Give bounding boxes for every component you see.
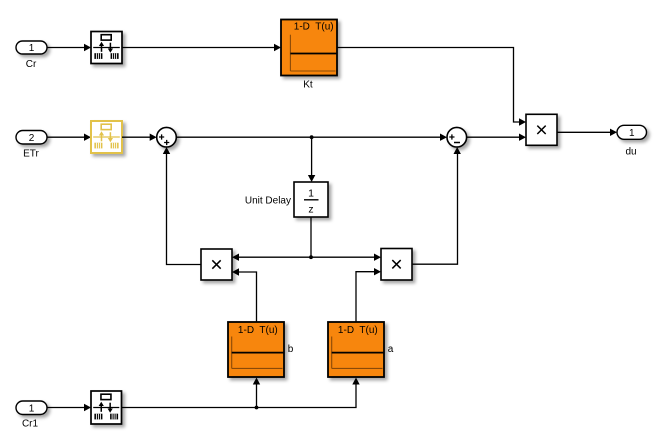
svg-text:1-D T(u): 1-D T(u)	[338, 325, 378, 336]
wire a top to P2 input2	[356, 272, 375, 322]
svg-text:1: 1	[308, 188, 314, 200]
wire ETr to B2	[47, 136, 85, 138]
lookup table b	[228, 322, 284, 377]
wire P2 out to S2 bottom	[412, 153, 458, 264]
wire UD out junction to P1 P2	[310, 217, 312, 257]
svg-text:ETr: ETr	[23, 149, 39, 160]
svg-text:b: b	[288, 344, 294, 355]
wire B1 to Kt	[122, 47, 275, 49]
svg-text:Unit Delay: Unit Delay	[245, 196, 291, 207]
svg-text:Cr: Cr	[26, 59, 37, 70]
lookup table Kt	[281, 20, 337, 76]
inport 1 Cr	[16, 41, 47, 54]
svg-text:Kt: Kt	[303, 80, 313, 91]
wire P1 out to S1 bottom	[167, 153, 202, 265]
inport 2 ETr	[16, 131, 47, 145]
sum S1	[157, 127, 177, 147]
wire Kt to P3 input1	[337, 48, 520, 123]
rate transition block B1	[91, 32, 122, 64]
wire S1 to S2 with junction	[176, 136, 441, 138]
svg-text:Cr1: Cr1	[22, 418, 39, 429]
rate transition block B2 yellow	[91, 121, 122, 153]
lookup table a	[328, 322, 384, 377]
product P1 mirrored	[201, 249, 232, 280]
sum S2	[447, 127, 467, 147]
rate transition block B3	[91, 391, 122, 424]
wire S2 to P3 input2	[467, 136, 520, 138]
wire P3 to outport	[557, 131, 611, 133]
svg-text:1-D T(u): 1-D T(u)	[238, 325, 278, 336]
wire Cr1 to B3	[47, 407, 85, 409]
svg-text:1: 1	[629, 128, 635, 139]
wire b top to P1 input2	[239, 272, 257, 322]
svg-text:1: 1	[29, 403, 35, 414]
svg-text:1-D T(u): 1-D T(u)	[294, 22, 334, 33]
svg-text:a: a	[388, 344, 394, 355]
unit delay block	[294, 182, 328, 217]
wire B2 to S1	[122, 136, 151, 138]
svg-text:du: du	[625, 147, 636, 158]
product P3	[526, 114, 557, 145]
wire Cr to B1	[47, 47, 85, 49]
inport 1 Cr1	[16, 401, 47, 415]
svg-text:2: 2	[29, 133, 35, 144]
svg-text:z: z	[308, 204, 313, 216]
outport 1 du	[617, 125, 647, 139]
product P2	[381, 249, 412, 281]
wire B3 to b and a bottom with junction	[122, 384, 357, 408]
svg-text:1: 1	[29, 43, 35, 54]
